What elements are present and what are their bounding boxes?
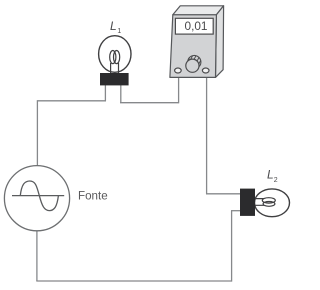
wire: left vertical down to source xyxy=(36,100,38,166)
source sine wave xyxy=(20,181,58,211)
lamp L1 base xyxy=(100,73,129,85)
lamp L1 filament loops xyxy=(110,51,116,64)
wire: multimeter right terminal down xyxy=(206,72,208,194)
wire: up to multimeter left terminal xyxy=(178,72,180,103)
svg-text:2: 2 xyxy=(274,177,278,184)
lamp L1 filament legs xyxy=(111,63,119,74)
svg-text:Fonte: Fonte xyxy=(78,190,108,203)
svg-text:1: 1 xyxy=(117,28,121,35)
multimeter right face xyxy=(216,6,224,78)
wire: horizontal to under multimeter xyxy=(120,102,179,104)
lamp L2 bulb xyxy=(255,189,290,217)
wire: bottom rail xyxy=(36,280,231,282)
lamp L1 bulb xyxy=(99,36,131,73)
multimeter top face xyxy=(173,6,224,15)
multimeter knob ridge band xyxy=(188,55,201,66)
wire: into L2 base lower xyxy=(231,210,242,212)
svg-text:L: L xyxy=(110,19,117,33)
wire: L1 right leg down xyxy=(120,85,122,103)
lamp L2 filament legs xyxy=(254,199,264,206)
svg-text:0,01: 0,01 xyxy=(185,19,208,33)
svg-text:L: L xyxy=(267,168,274,182)
multimeter left terminal xyxy=(175,68,182,73)
lamp L2 filament loops xyxy=(262,198,275,203)
multimeter right terminal xyxy=(202,68,209,73)
multimeter front face xyxy=(170,15,217,78)
wire: right riser up from bottom rail xyxy=(231,211,233,282)
wire: source bottom to bottom rail xyxy=(36,230,38,281)
wire: top-left horizontal xyxy=(37,100,106,102)
source axis line xyxy=(12,195,64,197)
wire: into L2 base upper xyxy=(206,193,242,195)
multimeter knob xyxy=(186,59,199,72)
lamp L2 base xyxy=(240,189,255,216)
multimeter display xyxy=(175,18,213,34)
wire: L1 left leg down xyxy=(104,85,106,101)
source (Fonte) circle xyxy=(4,166,69,231)
